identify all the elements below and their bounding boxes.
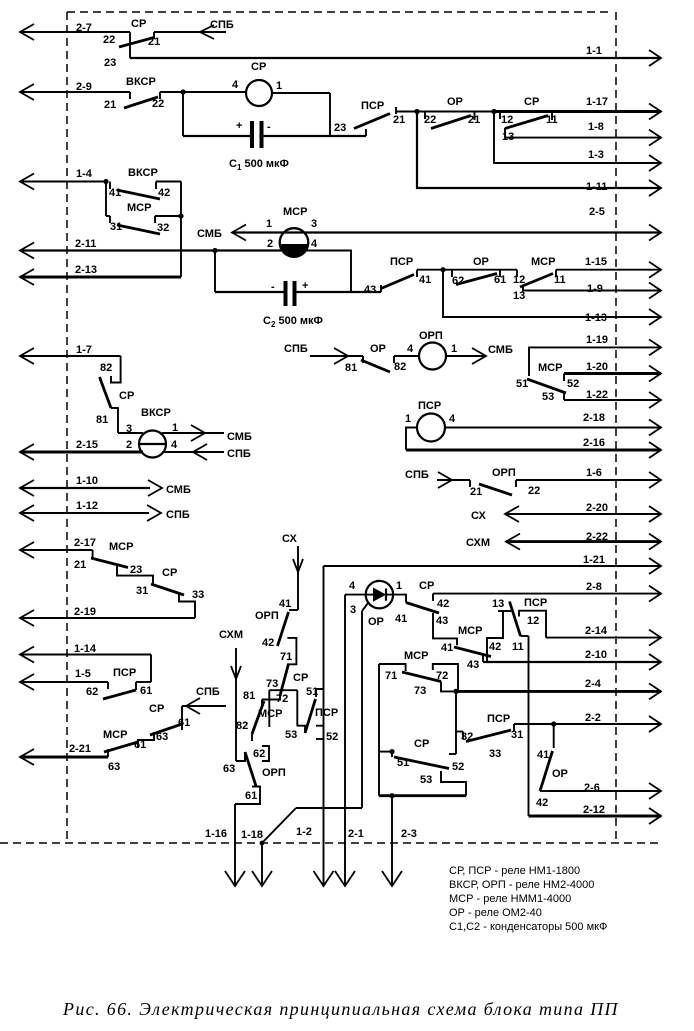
svg-text:ОР - реле ОМ2-40: ОР - реле ОМ2-40	[449, 907, 542, 919]
wire row 1-6 with right arrow	[516, 467, 661, 488]
contact МСР 51-52-53 (rows 1-20 1-22)	[516, 362, 579, 403]
svg-text:1-9: 1-9	[587, 283, 603, 295]
svg-text:3: 3	[311, 218, 317, 230]
svg-text:2: 2	[267, 238, 273, 250]
svg-text:-: -	[267, 121, 271, 133]
svg-text:МСР - реле НММ1-4000: МСР - реле НММ1-4000	[449, 893, 571, 905]
svg-text:1-8: 1-8	[588, 121, 604, 133]
svg-text:4: 4	[171, 439, 178, 451]
svg-text:33: 33	[489, 748, 501, 760]
wire row 1-17 with right arrow	[494, 96, 661, 120]
svg-text:С1 500 мкФ: С1 500 мкФ	[229, 158, 289, 172]
svg-text:2-13: 2-13	[75, 264, 97, 276]
svg-text:1-7: 1-7	[76, 344, 92, 356]
relay coil ПСР	[405, 400, 456, 442]
contact ОРП 63-61 (to 1-16)	[223, 752, 286, 804]
wire row 1-12 double arrow СПБ	[20, 500, 190, 521]
contact СР 41-42-43 (row 2-8)	[393, 580, 449, 627]
svg-text:11: 11	[546, 114, 558, 126]
svg-text:41: 41	[537, 749, 549, 761]
wire row 2-15 with left arrow	[20, 439, 251, 460]
svg-text:1-14: 1-14	[74, 643, 97, 655]
svg-text:12: 12	[513, 274, 525, 286]
svg-text:73: 73	[266, 678, 278, 690]
svg-text:53: 53	[420, 774, 432, 786]
arrow СМБ into МСР row	[197, 225, 246, 241]
svg-text:ПСР: ПСР	[418, 400, 441, 412]
contact СР 31-33 (ladder)	[136, 567, 204, 618]
svg-text:СМБ: СМБ	[227, 431, 252, 443]
svg-text:2-5: 2-5	[589, 206, 605, 218]
svg-text:1: 1	[266, 218, 272, 230]
node junction 2-3 column	[389, 793, 394, 798]
svg-text:СПБ: СПБ	[227, 448, 251, 460]
svg-text:1-22: 1-22	[586, 389, 608, 401]
svg-text:ПСР: ПСР	[390, 256, 413, 268]
node junction СР 51	[389, 749, 394, 754]
arrow СПБ into ladder	[182, 686, 226, 714]
wire row 1-8 from СР 13	[505, 121, 661, 146]
svg-text:СР: СР	[293, 672, 308, 684]
svg-text:СПБ: СПБ	[196, 686, 220, 698]
svg-text:1: 1	[396, 580, 402, 592]
svg-text:4: 4	[232, 79, 239, 91]
contact СР 82-81 (vertical)	[96, 356, 134, 433]
svg-text:+: +	[302, 280, 308, 292]
contact ПСР 43-21 (to row 1-17)	[334, 100, 417, 136]
svg-text:2-8: 2-8	[586, 581, 602, 593]
contact МСР 81-82 (vertical)	[236, 690, 282, 741]
legend	[449, 865, 607, 933]
svg-text:3: 3	[350, 604, 356, 616]
wire row 1-7 with left arrow	[20, 344, 121, 364]
contact СР 71-73-72 (vertical)	[266, 638, 308, 727]
node junction ОР41 on 2-2	[551, 721, 556, 726]
contact ПСР 51-53-52 (vertical)	[285, 686, 338, 743]
svg-text:1-5: 1-5	[75, 668, 91, 680]
svg-text:1-18: 1-18	[241, 829, 263, 841]
svg-text:1-19: 1-19	[586, 334, 608, 346]
wire СХ input arrow down	[282, 533, 303, 610]
svg-text:СР: СР	[119, 390, 134, 402]
svg-text:1-17: 1-17	[586, 96, 608, 108]
arrow СПБ into ОР contact row	[284, 343, 363, 364]
wire thick bus to 2-3	[379, 794, 466, 797]
svg-text:51: 51	[516, 378, 528, 390]
svg-text:1-13: 1-13	[585, 312, 607, 324]
svg-text:2-17: 2-17	[74, 537, 96, 549]
svg-text:72: 72	[436, 670, 448, 682]
svg-text:11: 11	[554, 274, 566, 286]
wire row 2-2 with right arrow	[514, 712, 661, 732]
wire row 1-4 with left arrow	[20, 168, 106, 190]
svg-text:42: 42	[158, 187, 170, 199]
svg-text:2-19: 2-19	[74, 606, 96, 618]
svg-text:ПСР: ПСР	[361, 100, 384, 112]
svg-text:ОР: ОР	[368, 616, 384, 628]
contact МСР 41-42-43 (row 2-10)	[433, 613, 501, 671]
wire row 2-11 with left arrow	[20, 238, 281, 259]
svg-text:СМБ: СМБ	[197, 228, 222, 240]
svg-text:1-16: 1-16	[205, 828, 227, 840]
relay coil СР	[232, 61, 282, 106]
svg-text:63: 63	[108, 761, 120, 773]
contact ОР 41-42 (row 2-6)	[536, 724, 568, 809]
svg-text:22: 22	[152, 98, 164, 110]
svg-text:1-1: 1-1	[586, 45, 602, 57]
svg-text:-: -	[271, 281, 275, 293]
svg-text:13: 13	[513, 290, 525, 302]
contact СР 22-21-23 (row 2-7)	[103, 18, 226, 69]
contact МСР 21-23 (ladder)	[74, 541, 153, 585]
svg-text:+: +	[236, 120, 242, 132]
svg-text:61: 61	[178, 717, 190, 729]
svg-text:ВКСР: ВКСР	[141, 407, 171, 419]
contact ПСР 43-41 (row 1-15)	[364, 256, 443, 296]
svg-text:22: 22	[103, 34, 115, 46]
svg-text:51: 51	[306, 686, 318, 698]
svg-text:13: 13	[492, 598, 504, 610]
svg-text:СХМ: СХМ	[219, 629, 243, 641]
capacitor C1 500 мкФ	[229, 120, 289, 172]
svg-text:МСР: МСР	[127, 202, 151, 214]
svg-text:81: 81	[345, 362, 357, 374]
svg-text:ОРП: ОРП	[419, 330, 443, 342]
svg-text:12: 12	[501, 114, 513, 126]
svg-text:2-11: 2-11	[75, 238, 96, 250]
svg-text:43: 43	[467, 659, 479, 671]
svg-text:33: 33	[192, 589, 204, 601]
svg-text:4: 4	[407, 343, 414, 355]
svg-text:СР: СР	[131, 18, 146, 30]
svg-text:62: 62	[86, 686, 98, 698]
svg-text:1-12: 1-12	[76, 500, 98, 512]
svg-text:21: 21	[470, 486, 482, 498]
node junction 1-18 on border	[260, 841, 265, 846]
svg-text:21: 21	[74, 559, 86, 571]
svg-text:22: 22	[424, 114, 436, 126]
svg-text:53: 53	[285, 729, 297, 741]
contact ОРП 62 bracket	[253, 746, 269, 761]
svg-text:МСР: МСР	[531, 256, 555, 268]
wire row 1-21 with right arrow	[324, 554, 662, 574]
svg-text:31: 31	[511, 729, 523, 741]
svg-text:1-4: 1-4	[76, 168, 93, 180]
svg-text:81: 81	[243, 690, 255, 702]
wire МСР coil loop with C2	[215, 251, 381, 293]
wire row 1-15 with right arrow	[556, 256, 661, 278]
svg-text:21: 21	[104, 99, 116, 111]
svg-text:2-15: 2-15	[76, 439, 98, 451]
svg-text:МСР: МСР	[538, 362, 562, 374]
border dashed block outline	[0, 12, 663, 843]
wire row 2-5 with right arrow	[232, 206, 661, 241]
contact ОР 81-82 (row ОРП)	[345, 343, 419, 374]
node junction on 2-4	[453, 689, 458, 694]
svg-text:2-16: 2-16	[583, 437, 605, 449]
relay coil ОРП	[407, 330, 457, 370]
svg-text:ПСР: ПСР	[524, 597, 547, 609]
svg-text:51: 51	[397, 757, 409, 769]
svg-text:2-2: 2-2	[585, 712, 601, 724]
svg-text:82: 82	[236, 720, 248, 732]
svg-text:СПБ: СПБ	[166, 509, 190, 521]
svg-text:ПСР: ПСР	[487, 713, 510, 725]
contact МСР 12-11-13 (row 1-15)	[513, 256, 566, 302]
relay coil МСР (half filled)	[266, 206, 318, 257]
contact ОРП 41-42 (vertical)	[255, 598, 298, 649]
svg-text:СР: СР	[149, 703, 164, 715]
svg-text:21: 21	[393, 114, 405, 126]
wire row 2-13 with left arrow	[20, 216, 181, 285]
contact ОР 62-61 (row 1-15)	[443, 256, 517, 287]
svg-text:81: 81	[96, 414, 108, 426]
svg-text:23: 23	[104, 57, 116, 69]
svg-text:СР: СР	[524, 96, 539, 108]
svg-text:МСР: МСР	[258, 708, 282, 720]
svg-text:52: 52	[452, 761, 464, 773]
contact МСР 71-72-73 (row 2-4)	[379, 650, 458, 697]
node junction ОР-СР	[491, 109, 496, 114]
svg-text:СМБ: СМБ	[488, 344, 513, 356]
svg-text:МСР: МСР	[103, 729, 127, 741]
svg-text:43: 43	[436, 615, 448, 627]
svg-text:2-18: 2-18	[583, 412, 605, 424]
svg-text:22: 22	[528, 485, 540, 497]
svg-text:1-21: 1-21	[583, 554, 605, 566]
svg-text:МСР: МСР	[109, 541, 133, 553]
svg-text:СПБ: СПБ	[210, 19, 234, 31]
wire row 1-20 with right arrow	[564, 361, 661, 382]
svg-text:23: 23	[334, 122, 346, 134]
svg-text:СПБ: СПБ	[405, 469, 429, 481]
svg-text:71: 71	[385, 670, 397, 682]
svg-text:52: 52	[567, 378, 579, 390]
svg-text:ВКСР, ОРП - реле НМ2-4000: ВКСР, ОРП - реле НМ2-4000	[449, 879, 594, 891]
svg-text:ОР: ОР	[370, 343, 386, 355]
contact СР 51-52-53	[392, 738, 466, 796]
wire column 1-16 with down arrow	[205, 804, 245, 886]
svg-text:МСР: МСР	[404, 650, 428, 662]
wire row 1-5 with left arrow	[20, 668, 108, 690]
arrow СПБ into row 2-7	[200, 19, 234, 39]
svg-text:12: 12	[527, 615, 539, 627]
svg-text:ОРП: ОРП	[262, 767, 286, 779]
svg-text:СР: СР	[419, 580, 434, 592]
svg-text:1-2: 1-2	[296, 826, 312, 838]
contact ВКСР 41-42	[109, 167, 181, 216]
svg-text:53: 53	[542, 391, 554, 403]
wire row 1-9 from МСР 13	[523, 283, 661, 299]
svg-text:21: 21	[148, 36, 160, 48]
svg-text:1-20: 1-20	[586, 361, 608, 373]
svg-text:61: 61	[494, 274, 506, 286]
svg-text:СХ: СХ	[471, 510, 487, 522]
svg-text:СР: СР	[162, 567, 177, 579]
node junction ПСР-ОР	[414, 109, 419, 114]
svg-text:2-1: 2-1	[348, 828, 364, 840]
svg-text:41: 41	[395, 613, 407, 625]
svg-text:МСР: МСР	[283, 206, 307, 218]
wire row 2-22 with СХМ arrow	[466, 531, 661, 550]
wire row 1-3 from ОР-СР node	[494, 112, 661, 172]
svg-text:2-20: 2-20	[586, 502, 608, 514]
svg-text:2-14: 2-14	[585, 625, 608, 637]
svg-text:32: 32	[157, 222, 169, 234]
svg-text:1: 1	[276, 80, 282, 92]
contact СР 12-11-13 (row 1-17)	[500, 96, 558, 143]
svg-text:42: 42	[262, 637, 274, 649]
svg-text:52: 52	[326, 731, 338, 743]
svg-text:2-12: 2-12	[583, 804, 605, 816]
contact ОРП 21-22 (row 1-6)	[470, 467, 540, 498]
svg-text:41: 41	[279, 598, 291, 610]
wire column 2-1 from diode pin 4	[335, 595, 366, 886]
svg-text:СР: СР	[251, 61, 266, 73]
svg-text:1-15: 1-15	[585, 256, 607, 268]
wire row 2-14 with right arrow	[546, 625, 661, 646]
svg-text:2-7: 2-7	[76, 22, 92, 34]
svg-text:С2 500 мкФ: С2 500 мкФ	[263, 315, 323, 329]
contact ПСР 62-61 (row 1-5)	[86, 667, 152, 699]
wire row 1-11 from ПСР-ОР node	[417, 112, 661, 197]
svg-text:41: 41	[419, 274, 431, 286]
svg-text:2: 2	[126, 439, 132, 451]
contact МСР 63-61 (ladder up)	[103, 729, 154, 773]
svg-text:63: 63	[156, 731, 168, 743]
svg-text:21: 21	[468, 114, 480, 126]
svg-text:41: 41	[109, 187, 121, 199]
svg-text:43: 43	[364, 284, 376, 296]
wire row 1-10 double arrow СМБ	[20, 475, 191, 496]
svg-text:2-9: 2-9	[76, 81, 92, 93]
wire row 2-20 with СХ arrow	[471, 502, 661, 522]
wire row 1-22 with right arrow	[564, 389, 661, 408]
wire row 2-8 with right arrow	[433, 581, 661, 602]
svg-text:1-6: 1-6	[586, 467, 602, 479]
svg-text:31: 31	[136, 585, 148, 597]
wire row 2-4 with right arrow	[458, 678, 661, 699]
svg-text:Рис. 66. Электрическая принцип: Рис. 66. Электрическая принципиальная сх…	[62, 999, 619, 1019]
svg-text:11: 11	[512, 641, 524, 653]
wire ОРП to СМБ arrow	[446, 344, 513, 364]
svg-text:СМБ: СМБ	[166, 484, 191, 496]
svg-text:1-3: 1-3	[588, 149, 604, 161]
wire row 1-14 with left arrow	[20, 643, 151, 682]
svg-text:4: 4	[449, 413, 456, 425]
wire ВКСР top to СМБ arrow	[118, 425, 252, 443]
svg-text:73: 73	[414, 685, 426, 697]
svg-text:1-10: 1-10	[76, 475, 98, 487]
svg-text:2-6: 2-6	[584, 782, 600, 794]
svg-text:ОР: ОР	[473, 256, 489, 268]
svg-text:2-21: 2-21	[69, 743, 91, 755]
wire row 2-6 with right arrow	[549, 782, 661, 799]
svg-text:71: 71	[280, 651, 292, 663]
wire row 1-19 with right arrow	[529, 334, 661, 376]
node 42-13 link	[487, 611, 511, 662]
contact ПСР 32-31-33 (row 2-2)	[456, 713, 523, 760]
svg-text:41: 41	[441, 642, 453, 654]
svg-text:ОРП: ОРП	[255, 610, 279, 622]
svg-text:СР, ПСР - реле НМ1-1800: СР, ПСР - реле НМ1-1800	[449, 865, 580, 877]
svg-text:ОР: ОР	[552, 768, 568, 780]
svg-text:1: 1	[405, 413, 411, 425]
wire row 2-19 with left arrow	[20, 606, 195, 626]
contact СР 63-61 (ladder up)	[149, 703, 190, 743]
svg-text:63: 63	[223, 763, 235, 775]
wire row 2-7 with left arrow	[20, 22, 130, 40]
svg-text:2-22: 2-22	[586, 531, 608, 543]
wire column 1-18 with down arrow	[241, 808, 362, 886]
wire СХМ input arrow down	[219, 629, 243, 761]
svg-text:42: 42	[437, 598, 449, 610]
wire ПСР32 feed from 2-4	[455, 691, 457, 754]
relay coil ВКСР	[126, 407, 178, 458]
svg-text:4: 4	[311, 238, 318, 250]
svg-text:32: 32	[461, 731, 473, 743]
node junction at coil loop left	[180, 89, 185, 94]
svg-text:ВКСР: ВКСР	[128, 167, 158, 179]
svg-text:4: 4	[349, 580, 356, 592]
svg-text:31: 31	[110, 221, 122, 233]
svg-text:82: 82	[100, 362, 112, 374]
wire row 1-1 with right arrow	[130, 45, 661, 66]
wire row 2-16 with right arrow	[406, 428, 661, 459]
contact ПСР 13-12-11	[492, 597, 547, 653]
wire СР coil loop	[183, 92, 366, 136]
wire МСР71 feed down to СР51 node	[379, 664, 392, 796]
svg-text:62: 62	[452, 275, 464, 287]
wire row 2-18 with right arrow	[445, 412, 661, 436]
svg-text:С1,С2 - конденсаторы 500 мкФ: С1,С2 - конденсаторы 500 мкФ	[449, 921, 607, 933]
svg-text:1-11: 1-11	[586, 181, 607, 193]
svg-text:ОРП: ОРП	[492, 467, 516, 479]
svg-text:2-4: 2-4	[585, 678, 602, 690]
svg-text:62: 62	[253, 748, 265, 760]
svg-text:ВКСР: ВКСР	[126, 76, 156, 88]
wire column 1-2 with down arrow	[296, 566, 334, 886]
wire row 2-21 with left arrow	[20, 743, 108, 765]
contact ОР 22-21 (row 1-17)	[417, 96, 494, 129]
node junction row 1-4	[103, 179, 108, 184]
node junction C2 loop left	[212, 248, 217, 253]
svg-text:ПСР: ПСР	[113, 667, 136, 679]
svg-text:ПСР: ПСР	[315, 707, 338, 719]
svg-text:61: 61	[245, 790, 257, 802]
svg-text:СХ: СХ	[282, 533, 298, 545]
svg-text:82: 82	[394, 361, 406, 373]
wire 11 column down to 2-12	[528, 636, 530, 816]
relay ОР with diode	[349, 580, 407, 628]
svg-text:61: 61	[140, 685, 152, 697]
node junction МСР 32	[178, 213, 183, 218]
svg-text:СР: СР	[414, 738, 429, 750]
svg-text:1: 1	[451, 343, 457, 355]
wire row 2-17 with left arrow	[20, 537, 96, 558]
svg-text:СХМ: СХМ	[466, 537, 490, 549]
contact МСР 31-32	[106, 182, 181, 235]
contact ВКСР 21-22 (row 2-9)	[104, 76, 246, 111]
svg-text:СПБ: СПБ	[284, 343, 308, 355]
svg-text:ОР: ОР	[447, 96, 463, 108]
wire row 2-10 with right arrow	[483, 649, 661, 670]
arrow СПБ into ОРП 21-22 row	[405, 469, 470, 488]
capacitor C2 500 мкФ	[263, 280, 323, 329]
svg-text:42: 42	[489, 641, 501, 653]
wire diode pin 3 to 1-18 node	[362, 603, 368, 808]
wire column 2-3 with down arrow	[382, 796, 417, 886]
